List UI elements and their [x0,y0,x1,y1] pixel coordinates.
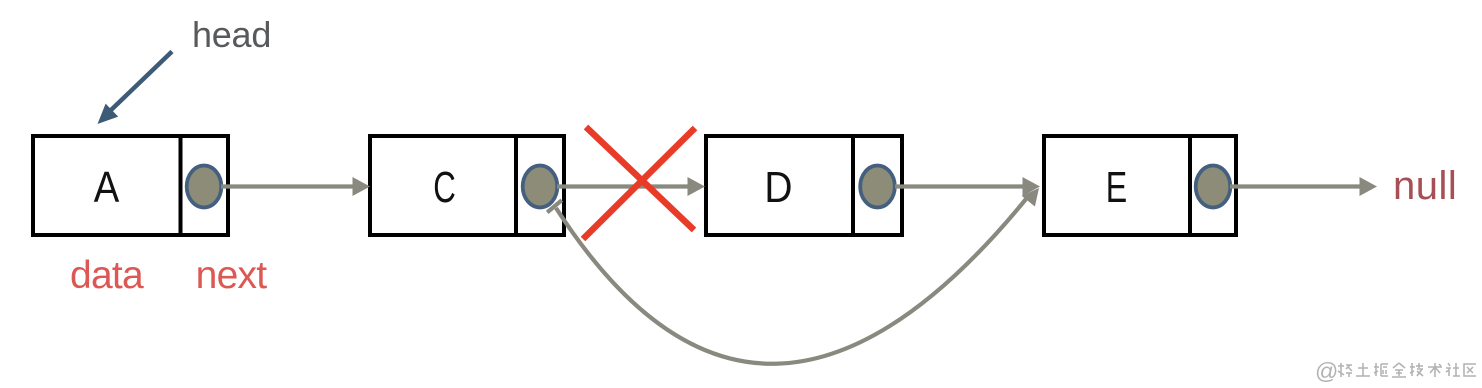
svg-text:next: next [196,254,268,297]
svg-text:E: E [1106,163,1127,212]
svg-text:@: @ [1315,358,1338,384]
svg-text:C: C [433,163,456,213]
svg-text:A: A [94,163,120,212]
svg-text:data: data [70,254,144,297]
svg-text:D: D [764,162,792,212]
svg-text:null: null [1393,164,1457,208]
svg-text:head: head [192,14,271,55]
